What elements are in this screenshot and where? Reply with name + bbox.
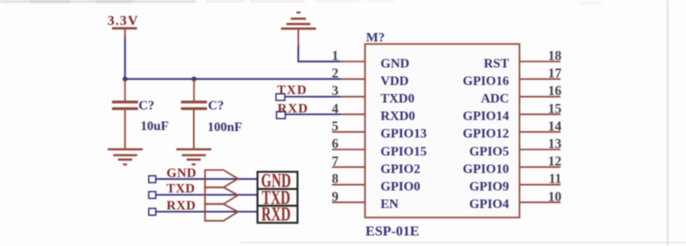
- svg-text:18: 18: [548, 48, 562, 63]
- svg-text:RST: RST: [484, 55, 510, 70]
- svg-text:14: 14: [548, 118, 562, 133]
- svg-text:TXD: TXD: [167, 181, 196, 196]
- svg-text:EN: EN: [381, 196, 400, 211]
- svg-text:GPIO16: GPIO16: [463, 73, 510, 88]
- svg-text:GPIO5: GPIO5: [469, 143, 509, 158]
- svg-text:RXD: RXD: [167, 198, 196, 213]
- svg-text:C?: C?: [139, 98, 155, 113]
- svg-text:GPIO0: GPIO0: [381, 179, 421, 194]
- svg-text:RXD: RXD: [278, 100, 309, 115]
- svg-text:8: 8: [332, 171, 339, 186]
- svg-text:ESP-01E: ESP-01E: [366, 224, 420, 239]
- svg-text:TXD: TXD: [277, 82, 307, 97]
- svg-text:10: 10: [548, 189, 562, 204]
- svg-text:17: 17: [548, 66, 562, 81]
- svg-text:GND: GND: [381, 55, 410, 70]
- svg-text:GPIO15: GPIO15: [381, 143, 428, 158]
- svg-text:6: 6: [332, 136, 339, 151]
- svg-text:TXD0: TXD0: [381, 91, 415, 106]
- svg-text:GPIO14: GPIO14: [463, 108, 510, 123]
- svg-text:ADC: ADC: [481, 91, 509, 106]
- svg-text:5: 5: [332, 118, 339, 133]
- svg-text:100nF: 100nF: [208, 119, 243, 134]
- svg-text:7: 7: [332, 154, 339, 169]
- svg-text:13: 13: [548, 136, 562, 151]
- svg-text:GND: GND: [167, 165, 197, 180]
- svg-text:3.3V: 3.3V: [108, 14, 139, 29]
- svg-text:10uF: 10uF: [141, 118, 169, 133]
- svg-text:GPIO13: GPIO13: [381, 126, 428, 141]
- svg-text:RXD0: RXD0: [381, 108, 416, 123]
- svg-text:GPIO2: GPIO2: [381, 161, 421, 176]
- svg-text:4: 4: [332, 101, 339, 116]
- svg-text:C?: C?: [208, 98, 224, 113]
- svg-text:9: 9: [332, 189, 339, 204]
- svg-text:GPIO4: GPIO4: [469, 196, 509, 211]
- svg-text:11: 11: [549, 171, 562, 186]
- svg-text:12: 12: [548, 154, 562, 169]
- svg-text:GPIO12: GPIO12: [463, 126, 509, 141]
- svg-text:2: 2: [332, 66, 339, 81]
- svg-text:3: 3: [332, 83, 339, 98]
- svg-text:GPIO9: GPIO9: [469, 179, 509, 194]
- svg-text:M?: M?: [366, 29, 385, 44]
- svg-text:RXD: RXD: [261, 203, 290, 225]
- svg-text:15: 15: [548, 101, 562, 116]
- svg-text:16: 16: [548, 83, 562, 98]
- svg-text:GPIO10: GPIO10: [463, 161, 509, 176]
- svg-text:1: 1: [332, 48, 339, 63]
- svg-text:VDD: VDD: [381, 73, 409, 88]
